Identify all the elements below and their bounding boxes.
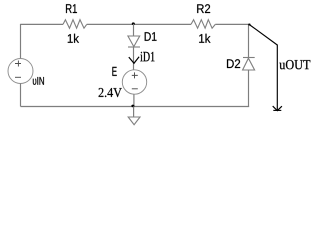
- wire middle vertical (junction to D1): [133, 24, 135, 36]
- diode D2 triangle: [243, 58, 255, 70]
- label iD1: [140, 52, 154, 62]
- wire bottom horizontal (ground rail): [21, 106, 250, 108]
- diode D1 cathode bar: [128, 46, 140, 48]
- wire middle vertical (D1 to source E): [133, 47, 135, 70]
- wire left vertical lower (uIN to bottom wire): [20, 84, 22, 107]
- node junction dot top (D1 branch): [132, 22, 135, 25]
- uOUT arrow diagonal segment and junction knot: [249, 24, 278, 45]
- node junction dot bottom (ground node): [131, 105, 134, 108]
- resistor R2: [191, 20, 215, 29]
- label R1: [66, 4, 77, 13]
- label R2: [197, 4, 210, 13]
- ground stub wire: [133, 106, 135, 117]
- ground symbol triangle: [128, 117, 140, 125]
- wire right vertical lower (D2 to bottom wire): [248, 70, 250, 107]
- voltage source uIN circle: [8, 59, 33, 84]
- label D2: [227, 59, 240, 68]
- wire right vertical upper (node to D2): [248, 24, 250, 58]
- wire top-right horizontal (R2 to D2 node): [215, 23, 249, 25]
- wire left vertical upper (to source uIN): [20, 24, 22, 59]
- label E: [112, 67, 116, 76]
- plus sign of E: [132, 72, 138, 78]
- value label 1k of R1: [68, 34, 79, 43]
- wire middle vertical (source E to bottom wire): [133, 94, 135, 106]
- wire top-middle horizontal (R1 to R2): [87, 23, 191, 25]
- minus sign of uIN: [15, 76, 21, 78]
- uOUT arrowhead: [273, 106, 282, 111]
- resistor R1: [63, 20, 87, 29]
- label uOUT: [279, 60, 310, 69]
- wire top-left horizontal (uIN to R1): [21, 23, 64, 25]
- plus sign of uIN: [15, 61, 21, 67]
- current arrow iD1 arrowhead: [129, 57, 139, 64]
- label D1: [145, 32, 157, 41]
- uOUT arrow vertical shaft: [276, 45, 278, 111]
- value label 2.4V: [99, 88, 122, 97]
- label uIN: [33, 77, 44, 85]
- voltage source E circle: [122, 70, 146, 94]
- value label 1k of R2: [199, 34, 210, 43]
- diode D1 triangle: [128, 36, 140, 47]
- minus sign of E: [132, 88, 138, 90]
- diode D2 cathode bar: [243, 57, 255, 59]
